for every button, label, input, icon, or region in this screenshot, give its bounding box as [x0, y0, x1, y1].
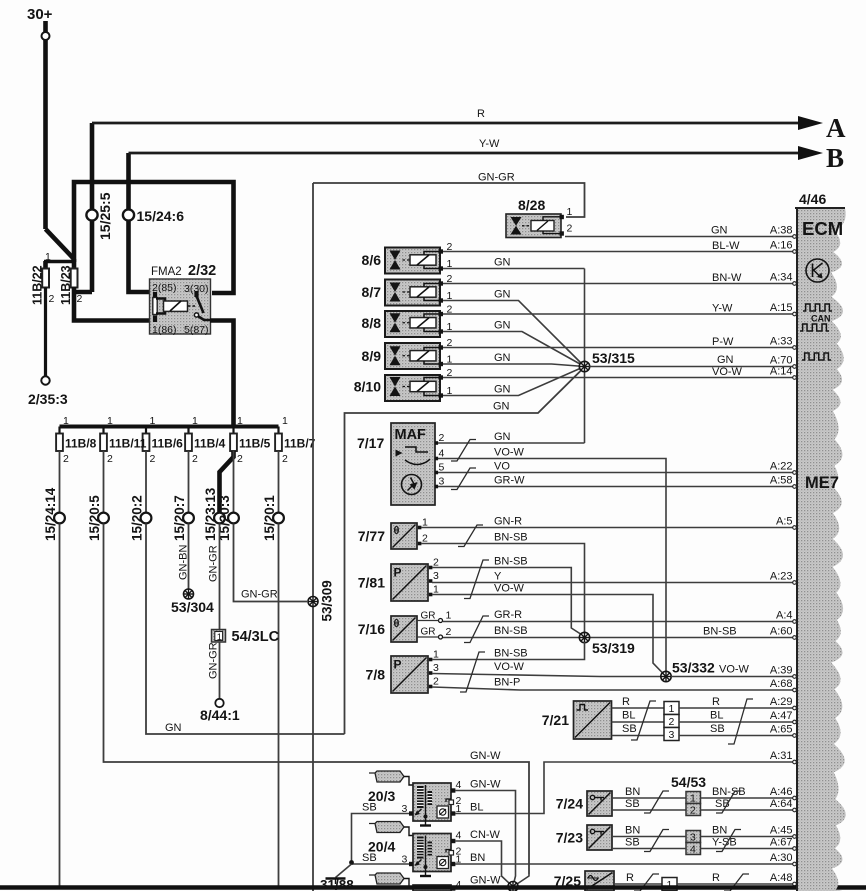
svg-text:SB: SB: [710, 723, 725, 735]
svg-text:A: A: [826, 113, 846, 143]
svg-text:15/23:13: 15/23:13: [203, 487, 218, 541]
wire VO-W: 53/332 to A:39: [671, 664, 796, 679]
pin A:30: [770, 852, 793, 864]
svg-text:15/20:1: 15/20:1: [262, 495, 277, 541]
svg-text:GN-W: GN-W: [470, 875, 501, 887]
wire GN riser into 53/315 and down to MAF: [584, 269, 586, 444]
pin A:33: [770, 336, 793, 348]
wire GR-R: 7/16 pin1 to A:4: [443, 609, 793, 622]
svg-text:4: 4: [456, 830, 462, 842]
svg-text:2: 2: [49, 293, 55, 305]
pin 1 (11B/22): [45, 251, 51, 263]
injector 8/8: [362, 304, 453, 338]
svg-text:BN: BN: [625, 825, 640, 837]
svg-text:VO-W: VO-W: [494, 661, 525, 673]
svg-text:A:34: A:34: [770, 272, 793, 284]
connector slash 7/21 right: [728, 699, 753, 744]
connector 15/20:2: [130, 495, 152, 541]
svg-text:8/6: 8/6: [362, 252, 382, 268]
wire BL: 7/21 to pin2 box: [612, 710, 665, 723]
splice 53/319: [579, 632, 635, 656]
connector slash MAF pins 2/4: [451, 440, 476, 462]
arrow A: [798, 113, 846, 143]
svg-text:R: R: [712, 872, 720, 884]
wire BN-SB: 7/16 pin2 through 53/319 to A:60: [443, 625, 796, 639]
wire SB: 20/3 pin3 to ground riser: [352, 802, 410, 862]
svg-text:1: 1: [192, 415, 198, 427]
svg-text:GN: GN: [711, 225, 728, 237]
wire GN-GR to 8/28 pin 1: [313, 172, 585, 218]
pin A:39: [770, 665, 793, 677]
pin A:15: [770, 302, 793, 314]
connector slash 7/21 left: [631, 701, 656, 740]
svg-text:A:16: A:16: [770, 240, 793, 252]
pin A:48: [770, 872, 793, 884]
svg-text:A:38: A:38: [770, 225, 793, 237]
connector slash 7/25: [634, 874, 659, 891]
svg-text:54/3LC: 54/3LC: [232, 629, 280, 645]
svg-text:CAN: CAN: [811, 314, 831, 324]
wire VO: MAF pin5 to A:22: [438, 461, 796, 475]
connector 54/53 label: [671, 774, 706, 790]
ignition coil 20/4 with spark plug: [368, 822, 462, 877]
wire GN-W: 20/3 pin4 down to junction: [455, 779, 516, 875]
fuse 11B/4 body: [185, 415, 198, 465]
connector pin 1 (7/25): [662, 878, 677, 891]
injector 8/10: [354, 367, 453, 401]
wire GN: 8/28 pin2 to A:38: [565, 225, 796, 239]
wire GN-GR: 15/23:13 to 54/3LC: [208, 524, 220, 630]
svg-text:GN-GR: GN-GR: [208, 642, 220, 679]
svg-text:SB: SB: [625, 837, 640, 849]
svg-text:1: 1: [217, 632, 222, 643]
connector pin 2 (7/21): [664, 715, 679, 729]
svg-text:11B/8: 11B/8: [65, 437, 97, 451]
svg-text:A:67: A:67: [770, 837, 793, 849]
svg-text:BN-SB: BN-SB: [703, 626, 737, 638]
pin A:16: [770, 240, 793, 252]
svg-text:A:39: A:39: [770, 665, 793, 677]
fuse 11B/8 label: [65, 437, 97, 451]
svg-text:2: 2: [77, 293, 83, 305]
connector 8/44:1: [200, 699, 240, 723]
fuse 11B/8 body: [56, 415, 69, 465]
svg-text:SB: SB: [622, 723, 637, 735]
connector slash 7/77: [458, 525, 483, 547]
connector 15/20:3: [217, 495, 239, 541]
svg-text:53/319: 53/319: [592, 640, 635, 656]
ECU 4/46 ECM strip: [795, 191, 846, 891]
wire VO-W: 7/8 pin3 to 53/332: [432, 661, 661, 677]
connector 15/24:6: [123, 208, 184, 224]
svg-text:A:31: A:31: [770, 750, 793, 762]
svg-text:53/304: 53/304: [171, 599, 214, 615]
svg-text:GR: GR: [421, 611, 436, 622]
wire BN: 7/23 to 54/53 pin3: [612, 825, 686, 837]
fuse 11B/23: [59, 259, 83, 305]
pin A:47: [770, 710, 793, 722]
connector slash 7/24: [644, 791, 669, 813]
connector slash 7/81: [464, 560, 489, 599]
svg-text:BN-W: BN-W: [712, 272, 742, 284]
svg-text:ME7: ME7: [805, 474, 839, 492]
svg-text:A:29: A:29: [770, 696, 793, 708]
wire GN: 8/7 pin1 diagonal: [443, 289, 585, 367]
ignition coil 20/3 with spark plug: [368, 771, 462, 826]
svg-text:3: 3: [669, 729, 675, 741]
svg-text:MAF: MAF: [395, 427, 427, 443]
wire BN-SB: 7/8 pin1 diagonal up to 53/319: [432, 642, 585, 660]
svg-text:7/16: 7/16: [358, 621, 385, 637]
svg-text:BN-SB: BN-SB: [494, 556, 528, 568]
wire 15/20:1 down to bottom bus: [278, 524, 280, 887]
svg-text:A:5: A:5: [776, 516, 793, 528]
svg-text:SB: SB: [362, 852, 377, 864]
svg-text:P: P: [394, 566, 402, 580]
wire fuse feed bus y261: [44, 260, 75, 263]
valve 8/28: [506, 197, 573, 238]
svg-text:15/20:5: 15/20:5: [87, 495, 102, 541]
wire GN: 8/8 pin1 diagonal: [443, 320, 585, 367]
wire VO-W: 7/81 pin1 diagonal to 53/332: [432, 583, 666, 677]
connector 2/35:3: [28, 376, 68, 407]
svg-text:GN: GN: [165, 722, 182, 734]
svg-text:15/20:2: 15/20:2: [130, 495, 145, 541]
svg-text:2: 2: [282, 453, 288, 465]
svg-text:A:46: A:46: [770, 786, 793, 798]
svg-text:A:58: A:58: [770, 475, 793, 487]
wire GN: 8/10 pin1 diagonal: [443, 367, 585, 396]
node 30+ label: [27, 6, 53, 23]
wire fuse drop to 15/24:14: [59, 451, 61, 513]
svg-text:11B/22: 11B/22: [31, 265, 45, 305]
svg-text:GN-GR: GN-GR: [208, 545, 220, 582]
connector slash 7/25 right: [724, 874, 749, 891]
svg-text:15/20:7: 15/20:7: [172, 495, 187, 541]
svg-text:7/77: 7/77: [358, 528, 385, 544]
sensor 7/8: [366, 649, 439, 694]
wire GN: MAF pin2 to 53/315 riser: [438, 431, 585, 443]
connector slash 7/8: [460, 652, 485, 692]
wire BN-W: 8/7 pin2 to A:34: [443, 272, 796, 285]
svg-text:2: 2: [107, 453, 113, 465]
svg-text:BN-P: BN-P: [494, 677, 520, 689]
wire BN-SB: 54/53 pin1 to A:46: [701, 786, 797, 800]
svg-text:15/25:5: 15/25:5: [97, 192, 113, 240]
wire SB: 7/23 to 54/53 pin4: [612, 837, 686, 849]
pin A:70: [770, 355, 793, 367]
wire GN-W label (15/20:5 branch): [470, 750, 501, 762]
svg-text:BL: BL: [470, 802, 483, 814]
svg-text:A:65: A:65: [770, 724, 793, 736]
svg-text:BN: BN: [712, 825, 727, 837]
svg-text:8/44:1: 8/44:1: [200, 707, 240, 723]
svg-text:1: 1: [690, 793, 696, 805]
svg-text:3: 3: [690, 832, 696, 844]
wire fuse bus y426: [60, 425, 279, 429]
wire fuse drop to 15/20:3: [233, 451, 235, 513]
svg-text:P-W: P-W: [712, 336, 734, 348]
pin A:58: [770, 475, 793, 487]
wire 15/25:5 joins 11B/23 branch: [73, 290, 92, 295]
svg-text:A:48: A:48: [770, 872, 793, 884]
svg-text:2: 2: [446, 626, 452, 638]
svg-text:VO: VO: [494, 461, 510, 473]
connector slash 7/16: [464, 616, 489, 643]
pin A:60: [770, 626, 793, 638]
fuse 11B/7 body: [275, 415, 288, 465]
wire Y-SB: 54/53 pin4 to A:67: [701, 837, 797, 851]
pin A:38: [770, 225, 793, 237]
svg-text:8/7: 8/7: [362, 284, 382, 300]
svg-text:CN-W: CN-W: [470, 829, 501, 841]
svg-text:SB: SB: [625, 798, 640, 810]
svg-text:11B/6: 11B/6: [152, 437, 184, 451]
pin A:22: [770, 461, 793, 473]
svg-text:1: 1: [107, 415, 113, 427]
svg-text:BN-SB: BN-SB: [712, 786, 746, 798]
sensor 7/25: [554, 871, 614, 891]
svg-text:GN: GN: [494, 320, 511, 332]
wire BN: 7/24 to 54/53 pin1: [612, 786, 686, 798]
svg-text:11B/5: 11B/5: [239, 437, 271, 451]
wire 15/24:14 down to bottom bus: [59, 524, 61, 887]
svg-text:BN-SB: BN-SB: [494, 625, 528, 637]
connector 54/3LC: [212, 629, 280, 645]
wire fuse drop to 15/20:2: [145, 451, 147, 513]
svg-text:7/21: 7/21: [542, 712, 569, 728]
wire relay 5(87) to fuse bus: [210, 321, 234, 428]
svg-text:54/53: 54/53: [671, 774, 706, 790]
svg-text:2: 2: [192, 453, 198, 465]
svg-text:GN-GR: GN-GR: [241, 589, 278, 601]
wire BL: to A:47: [679, 710, 796, 724]
connector 54/53 pin 2: [686, 804, 701, 817]
svg-text:1: 1: [63, 415, 69, 427]
svg-text:BN: BN: [470, 852, 485, 864]
svg-text:GN: GN: [717, 354, 734, 366]
wire VO-W: MAF pin4 to 53/332 riser: [438, 447, 666, 673]
pin A:68: [770, 678, 793, 690]
connector 54/53 pin 4: [686, 843, 701, 856]
svg-text:Y: Y: [494, 571, 502, 583]
pin A:31: [770, 750, 793, 762]
svg-text:8/10: 8/10: [354, 379, 381, 395]
svg-text:A:60: A:60: [770, 626, 793, 638]
injector 8/9: [362, 337, 453, 369]
svg-text:BN-SB: BN-SB: [494, 532, 528, 544]
svg-text:R: R: [622, 696, 630, 708]
svg-text:7/81: 7/81: [358, 575, 385, 591]
wire GN-GR trunk x313 (to 8/28 and down): [312, 183, 314, 891]
svg-text:53/309: 53/309: [320, 580, 335, 621]
svg-text:2: 2: [669, 716, 675, 728]
wire BL: 20/3 pin1 to A:31: [455, 760, 796, 813]
connector 15/24:14: [43, 487, 65, 541]
svg-text:1: 1: [567, 206, 573, 218]
junction SB dot: [349, 860, 354, 865]
wire R: to A:48: [677, 872, 796, 886]
svg-text:GN-W: GN-W: [470, 779, 501, 791]
splice 53/315: [579, 350, 635, 372]
svg-text:15/24:14: 15/24:14: [43, 487, 58, 541]
svg-text:2: 2: [567, 223, 573, 235]
svg-text:4: 4: [690, 844, 696, 856]
svg-text:A:33: A:33: [770, 336, 793, 348]
svg-text:4: 4: [456, 779, 462, 791]
injector 8/6: [362, 241, 453, 274]
svg-text:2: 2: [237, 453, 243, 465]
svg-text:2/35:3: 2/35:3: [28, 391, 68, 407]
wire BN-SB: 7/77 pin2 to 53/319 riser: [421, 532, 585, 633]
connector 15/23:13: [203, 487, 225, 541]
fuse 11B/6 label: [152, 437, 184, 451]
svg-text:GN: GN: [494, 431, 511, 443]
pin A:29: [770, 696, 793, 708]
pin A:34: [770, 272, 793, 284]
wire ground bus (bottom edge): [0, 885, 866, 889]
svg-text:A:68: A:68: [770, 678, 793, 690]
svg-text:2: 2: [150, 453, 156, 465]
connector pin 3 (7/21): [664, 728, 679, 742]
svg-text:2: 2: [433, 676, 439, 688]
wire GN: 8/9 pin1 diagonal: [443, 352, 585, 367]
pin A:65: [770, 724, 793, 736]
splice 53/309: [308, 580, 335, 621]
wire GN riser to injector common: [345, 367, 585, 734]
svg-text:7/23: 7/23: [556, 830, 583, 846]
svg-text:Y-W: Y-W: [712, 303, 733, 315]
svg-text:3: 3: [433, 570, 439, 582]
wire SB: 7/24 to 54/53 pin2: [612, 798, 686, 810]
svg-text:GR-R: GR-R: [494, 609, 522, 621]
sensor 7/16: [358, 610, 452, 643]
wire CN-W: 20/4 pin4 down to junction: [455, 829, 502, 874]
svg-text:30+: 30+: [27, 6, 53, 23]
svg-text:7/17: 7/17: [357, 435, 384, 451]
svg-text:1: 1: [446, 610, 452, 622]
ground 31/88: [320, 864, 354, 891]
relay 2/32 (FMA2): [150, 263, 217, 336]
svg-text:11B/11: 11B/11: [109, 437, 147, 451]
wire BN-SB: 7/81 pin2 diagonal to 53/319: [432, 556, 585, 637]
svg-text:1: 1: [669, 703, 675, 715]
svg-text:P: P: [394, 658, 402, 672]
wire GN-R: 7/77 pin1 to A:5: [421, 516, 796, 530]
pin A:5: [776, 516, 793, 528]
wire R: 7/21 to pin1 box: [612, 696, 665, 708]
svg-text:GN: GN: [494, 257, 511, 269]
svg-text:2: 2: [63, 453, 69, 465]
svg-text:1(86): 1(86): [152, 324, 177, 336]
wire GN: 15/20:2 down and right: [146, 524, 345, 735]
fuse 11B/11 label: [109, 437, 147, 451]
svg-text:11B/23: 11B/23: [59, 265, 73, 305]
svg-text:GN: GN: [494, 352, 511, 364]
svg-text:A:30: A:30: [770, 852, 793, 864]
svg-text:VO-W: VO-W: [719, 664, 750, 676]
wire fuse drop to 15/20:7: [188, 451, 190, 513]
wire GN-W: 15/20:5 down/right/down to coil junction: [104, 524, 530, 875]
connector slash 7/23 right: [716, 830, 741, 852]
svg-text:3: 3: [433, 662, 439, 674]
pin A:23: [770, 571, 793, 583]
wire GN-BN: 15/20:7 to 53/304: [178, 524, 190, 590]
svg-text:7/8: 7/8: [366, 667, 386, 683]
svg-text:1: 1: [237, 415, 243, 427]
svg-text:11B/7: 11B/7: [284, 437, 316, 451]
wire GN: 8/6 pin1 to 53/315 riser: [443, 257, 585, 269]
connector 15/20:1: [262, 495, 284, 541]
splice 53/304: [171, 589, 214, 615]
svg-text:VO-W: VO-W: [494, 583, 525, 595]
svg-text:VO-W: VO-W: [712, 366, 743, 378]
svg-text:BL: BL: [710, 710, 723, 722]
wire GN: 53/315 to A:70: [590, 354, 797, 368]
svg-text:θ: θ: [394, 618, 400, 630]
svg-text:R: R: [477, 108, 485, 120]
wire Y-W: 15/24:6 down to relay 2(85): [129, 153, 151, 292]
svg-text:GN-GR: GN-GR: [478, 172, 515, 184]
wire fuse drop to 15/20:5: [103, 451, 105, 513]
fuse 11B/5 body: [230, 415, 243, 465]
sensor 7/77: [358, 517, 428, 550]
wire GN-GR: 15/20:3 to 53/309: [234, 524, 308, 602]
sensor 7/21: [542, 701, 612, 739]
wire thick bus: 11B/23 top up-over to relay 3(30): [74, 182, 234, 293]
fuse 11B/6 body: [143, 415, 156, 465]
connector slash 7/23: [644, 830, 669, 852]
svg-text:5(87): 5(87): [184, 324, 209, 336]
sensor 7/17 MAF: [357, 423, 445, 505]
connector 54/53 pin 3: [686, 831, 701, 844]
svg-text:8/28: 8/28: [518, 197, 545, 213]
svg-text:A:4: A:4: [776, 610, 793, 622]
wire 11B/23 pin2 down to relay 1(86): [74, 287, 150, 321]
connector slash MAF pins 5/3: [451, 468, 476, 490]
svg-text:R: R: [712, 696, 720, 708]
svg-text:A:22: A:22: [770, 461, 793, 473]
svg-text:GR-W: GR-W: [494, 475, 525, 487]
svg-text:A:45: A:45: [770, 825, 793, 837]
svg-text:A:47: A:47: [770, 710, 793, 722]
wire BN: 20/4 pin1 to A:30: [455, 852, 796, 866]
svg-text:R: R: [626, 872, 634, 884]
pin A:14: [770, 366, 793, 378]
svg-text:11B/4: 11B/4: [194, 437, 226, 451]
svg-text:GR: GR: [421, 627, 436, 638]
wire GR-W: MAF pin3 to A:58: [438, 475, 796, 489]
ignition coil (partial, bottom edge) with spark plug: [369, 873, 462, 891]
injector 8/7: [362, 273, 453, 306]
wire SB: to A:65: [679, 723, 796, 737]
pin A:67: [770, 837, 793, 849]
wire SB: 20/4 pin3 joins ground riser: [352, 852, 410, 864]
wire Y-W: 8/8 pin2 to A:15: [443, 303, 796, 316]
svg-text:SB: SB: [362, 802, 377, 814]
wire R: 7/25 to pin box: [614, 872, 662, 884]
svg-text:GN-W: GN-W: [470, 750, 501, 762]
svg-text:GN-BN: GN-BN: [178, 545, 190, 581]
connector 15/25:5: [86, 192, 113, 240]
svg-text:2/32: 2/32: [188, 263, 216, 279]
wire R: to A:29: [679, 696, 796, 710]
connector 54/53 pin 1: [686, 792, 701, 805]
svg-text:A:14: A:14: [770, 366, 793, 378]
sensor 7/23: [556, 825, 612, 850]
wire 11B/5 thick feed to 15/23:13: [220, 451, 234, 513]
svg-text:A:64: A:64: [770, 798, 793, 810]
